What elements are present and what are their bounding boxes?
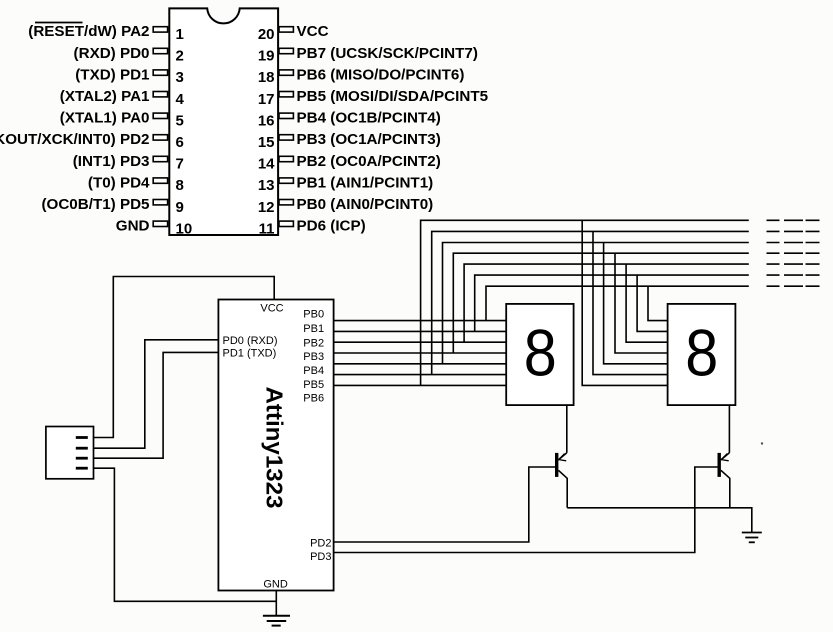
svg-text:15: 15 xyxy=(258,134,275,151)
svg-text:(T0) PD4: (T0) PD4 xyxy=(88,174,150,191)
wire DS1 common pin to Q1 xyxy=(566,405,568,453)
svg-text:(RESET/dW) PA2: (RESET/dW) PA2 xyxy=(28,23,149,40)
pin 16: PB4 (OC1B/PCINT4) xyxy=(258,110,441,130)
svg-text:17: 17 xyxy=(258,91,275,108)
wire PB2 net: U2 to DS1 pin, riser, top rail, drop to DS2 pin, dashed continuation xyxy=(334,264,820,342)
wire PB6 net: U2 to DS1 pin, riser, top rail, drop to DS2 pin, dashed continuation xyxy=(334,220,820,385)
wire PB0 net: U2 to DS1 pin, riser, top rail, drop to DS2 pin, dashed continuation xyxy=(334,286,820,320)
svg-text:VCC: VCC xyxy=(260,303,283,315)
wire TXD net: J1 pin3 to U2 PD1 xyxy=(94,352,219,458)
svg-text:2: 2 xyxy=(176,48,184,65)
svg-text:11: 11 xyxy=(259,220,275,237)
svg-text:PB2 (OC0A/PCINT2): PB2 (OC0A/PCINT2) xyxy=(297,153,441,170)
svg-text:PD0 (RXD): PD0 (RXD) xyxy=(223,335,278,347)
pin 15: PB3 (OC1A/PCINT3) xyxy=(258,131,441,151)
wire GND net: J1 pin4 down and over to U2 GND stem xyxy=(94,468,277,601)
svg-text:PD2: PD2 xyxy=(310,538,331,550)
svg-text:PB4: PB4 xyxy=(303,365,324,377)
svg-text:8: 8 xyxy=(176,177,184,194)
svg-text:VCC: VCC xyxy=(297,23,329,40)
svg-text:3: 3 xyxy=(176,69,184,86)
svg-text:10: 10 xyxy=(176,220,193,237)
svg-text:PB5: PB5 xyxy=(303,379,324,391)
svg-text:PB6 (MISO/DO/PCINT6): PB6 (MISO/DO/PCINT6) xyxy=(297,66,465,83)
wire VCC net: J1 pin1 up and over to U2 VCC pin xyxy=(94,277,275,438)
pin 6: (CKOUT/XCK/INT0) PD2 xyxy=(0,131,184,151)
wire PB5 net: U2 to DS1 pin, riser, top rail, drop to DS2 pin, dashed continuation xyxy=(334,231,820,374)
pin 19: PB7 (UCSK/SCK/PCINT7) xyxy=(258,45,478,65)
pin 14: PB2 (OC0A/PCINT2) xyxy=(258,153,441,173)
pin 20: VCC xyxy=(258,23,329,43)
IC U1 DIP-20 package body with pin-1 notch xyxy=(169,8,278,235)
pin 17: PB5 (MOSI/DI/SDA/PCINT5 xyxy=(258,88,489,108)
wire RXD net: J1 pin2 to U2 PD0 xyxy=(94,340,219,448)
7-segment display DS2 xyxy=(668,304,736,405)
pin 9: (OC0B/T1) PD5 xyxy=(41,196,183,216)
svg-text:PD3: PD3 xyxy=(310,551,331,563)
speck artifact xyxy=(761,442,763,444)
svg-text:18: 18 xyxy=(258,69,275,86)
svg-text:1: 1 xyxy=(176,26,184,43)
svg-text:PB3: PB3 xyxy=(303,351,324,363)
svg-text:14: 14 xyxy=(258,156,275,173)
svg-text:PB1: PB1 xyxy=(303,323,324,335)
wire PD2 net: U2 PD2 to Q1 base xyxy=(334,467,555,542)
wire PB3 net: U2 to DS1 pin, riser, top rail, drop to DS2 pin, dashed continuation xyxy=(334,253,820,353)
svg-text:8: 8 xyxy=(685,316,718,390)
svg-text:PB4 (OC1B/PCINT4): PB4 (OC1B/PCINT4) xyxy=(297,110,441,127)
svg-text:9: 9 xyxy=(176,199,184,216)
pin 10: GND xyxy=(116,218,192,238)
svg-text:(XTAL2) PA1: (XTAL2) PA1 xyxy=(60,88,150,105)
pin 4: (XTAL2) PA1 xyxy=(60,88,185,108)
svg-text:PB1 (AIN1/PCINT1): PB1 (AIN1/PCINT1) xyxy=(297,174,434,191)
svg-text:8: 8 xyxy=(524,316,557,390)
svg-text:PD1 (TXD): PD1 (TXD) xyxy=(223,347,277,359)
svg-text:(TXD) PD1: (TXD) PD1 xyxy=(75,66,150,83)
svg-text:GND: GND xyxy=(263,579,288,591)
wire PB1 net: U2 to DS1 pin, riser, top rail, drop to DS2 pin, dashed continuation xyxy=(334,275,820,331)
pin 18: PB6 (MISO/DO/PCINT6) xyxy=(258,66,465,86)
svg-text:(RXD) PD0: (RXD) PD0 xyxy=(74,45,150,62)
svg-text:PB0: PB0 xyxy=(303,309,324,321)
svg-text:5: 5 xyxy=(176,112,184,129)
svg-text:13: 13 xyxy=(258,177,275,194)
MCU U2 Attiny1323 box xyxy=(218,300,333,591)
pin 2: (RXD) PD0 xyxy=(74,45,184,65)
svg-text:PB3 (OC1A/PCINT3): PB3 (OC1A/PCINT3) xyxy=(297,131,441,148)
svg-text:PB7 (UCSK/SCK/PCINT7): PB7 (UCSK/SCK/PCINT7) xyxy=(297,45,478,62)
svg-text:PB0 (AIN0/PCINT0): PB0 (AIN0/PCINT0) xyxy=(297,196,434,213)
pin 1: (RESET/dW) PA2 xyxy=(28,23,184,44)
pin 5: (XTAL1) PA0 xyxy=(60,110,184,130)
pin 11: PD6 (ICP) xyxy=(259,218,366,238)
svg-text:PB5 (MOSI/DI/SDA/PCINT5: PB5 (MOSI/DI/SDA/PCINT5 xyxy=(297,88,489,105)
transistor Q1 xyxy=(555,453,567,508)
pin 3: (TXD) PD1 xyxy=(75,66,184,86)
pin 8: (T0) PD4 xyxy=(88,174,184,194)
svg-text:(OC0B/T1) PD5: (OC0B/T1) PD5 xyxy=(41,196,150,213)
svg-text:4: 4 xyxy=(176,91,185,108)
svg-text:Attiny1323: Attiny1323 xyxy=(262,387,288,509)
ground symbol right xyxy=(742,533,762,543)
pin 13: PB1 (AIN1/PCINT1) xyxy=(258,174,433,194)
connector J1 (4-pin header) xyxy=(46,427,94,479)
svg-text:GND: GND xyxy=(116,218,150,235)
svg-text:(CKOUT/XCK/INT0) PD2: (CKOUT/XCK/INT0) PD2 xyxy=(0,131,150,148)
svg-text:7: 7 xyxy=(176,156,184,173)
svg-text:20: 20 xyxy=(258,26,275,43)
svg-text:19: 19 xyxy=(258,48,275,65)
svg-text:12: 12 xyxy=(258,199,275,216)
svg-text:6: 6 xyxy=(176,134,184,151)
svg-text:PB2: PB2 xyxy=(303,337,324,349)
pin 7: (INT1) PD3 xyxy=(73,153,184,173)
svg-text:16: 16 xyxy=(258,112,275,129)
svg-text:PB6: PB6 xyxy=(303,392,324,404)
7-segment display DS1 xyxy=(506,304,573,405)
wire PD3 net: U2 PD3 to Q2 base xyxy=(334,467,718,553)
wire PB4 net: U2 to DS1 pin, riser, top rail, drop to DS2 pin, dashed continuation xyxy=(334,243,820,364)
wire emitter rail: Q1/Q2 emitters to ground xyxy=(567,508,752,533)
wire DS2 common pin to Q2 xyxy=(728,405,730,453)
svg-text:(XTAL1) PA0: (XTAL1) PA0 xyxy=(60,110,150,127)
pin 12: PB0 (AIN0/PCINT0) xyxy=(258,196,433,216)
ground symbol below U2 xyxy=(263,591,290,626)
svg-text:(INT1) PD3: (INT1) PD3 xyxy=(73,153,150,170)
transistor Q2 xyxy=(718,453,730,508)
svg-text:PD6 (ICP): PD6 (ICP) xyxy=(297,218,366,235)
